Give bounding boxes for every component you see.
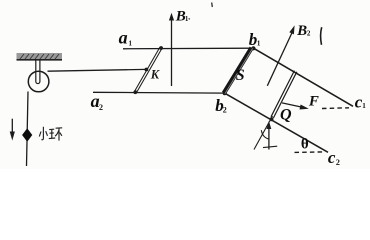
svg-text:K: K: [150, 68, 161, 82]
field arrow B2 (perpendicular to incline): [267, 25, 294, 85]
svg-text:2: 2: [336, 158, 340, 167]
force arrow F: [282, 103, 309, 110]
svg-text:θ: θ: [301, 136, 309, 152]
svg-text:B: B: [296, 23, 307, 39]
svg-text:a: a: [119, 27, 128, 47]
svg-text:2: 2: [99, 103, 103, 112]
小: [41, 127, 43, 140]
weight arrow (down): [10, 119, 15, 141]
rod Q (double line on incline): [271, 71, 297, 118]
small ring (diamond bead on string): [22, 128, 32, 141]
tiny speck right of B1: [189, 18, 190, 21]
rod Q extension below lower rail: [254, 116, 273, 150]
svg-text:Q: Q: [280, 107, 292, 124]
pulley wheel: [28, 71, 49, 92]
vertical arrow (up, below Q junction): [267, 121, 272, 150]
环: [49, 128, 54, 130]
dashed line at c1: [322, 107, 349, 110]
svg-text:1: 1: [257, 40, 261, 48]
rail a2 (lower horizontal): [93, 91, 225, 94]
rod K (double line on horizontal rails): [133, 46, 163, 94]
rail b2-c2 (lower incline): [225, 93, 329, 152]
string node on rod K: [145, 68, 149, 72]
svg-text:1: 1: [129, 40, 133, 48]
rail a1 (upper horizontal): [123, 47, 254, 50]
short horizontal tick: [263, 146, 277, 147]
svg-text:c: c: [328, 148, 336, 167]
rail b1-c1 (upper incline): [254, 48, 354, 106]
stray mark top: [211, 3, 214, 8]
string (horizontal, pulley to rod K): [48, 69, 147, 71]
rod S (thick dark rod between b1 and b2): [224, 48, 252, 93]
svg-text:F: F: [308, 93, 319, 109]
junction node b1: [251, 46, 255, 50]
svg-text:1: 1: [185, 15, 189, 23]
svg-text:1: 1: [362, 102, 366, 110]
label 小环 (hand-drawn CJK strokes): [39, 127, 62, 141]
angle arc at vertical arrow: [261, 130, 269, 139]
stray vertical bar right of B2: [321, 27, 322, 45]
svg-text:2: 2: [307, 30, 311, 38]
pulley bracket: [36, 60, 40, 84]
junction node b2: [223, 91, 227, 95]
dashed line at c2: [295, 151, 325, 154]
field arrow B1 (vertical): [169, 13, 174, 86]
junction node Q on lower rail: [270, 117, 274, 121]
string (vertical, pulley down): [27, 92, 29, 167]
ceiling: [17, 53, 63, 60]
svg-text:2: 2: [223, 105, 227, 114]
svg-text:S: S: [236, 67, 245, 84]
